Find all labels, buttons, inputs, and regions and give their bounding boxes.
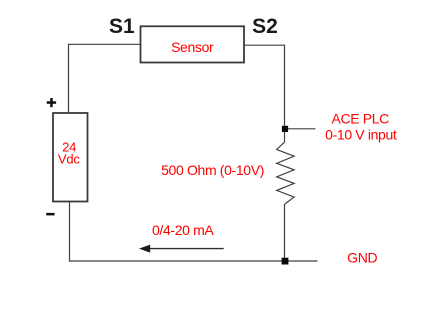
svg-text:Sensor: Sensor <box>171 39 214 55</box>
svg-text:S1: S1 <box>109 15 135 38</box>
svg-text:0-10 V input: 0-10 V input <box>325 126 397 142</box>
svg-text:Vdc: Vdc <box>58 152 81 167</box>
svg-text:S2: S2 <box>252 15 278 38</box>
svg-text:ACE PLC: ACE PLC <box>331 110 389 126</box>
svg-text:GND: GND <box>347 250 377 266</box>
svg-text:0/4-20 mA: 0/4-20 mA <box>152 222 214 238</box>
svg-text:500 Ohm (0-10V): 500 Ohm (0-10V) <box>161 162 264 178</box>
